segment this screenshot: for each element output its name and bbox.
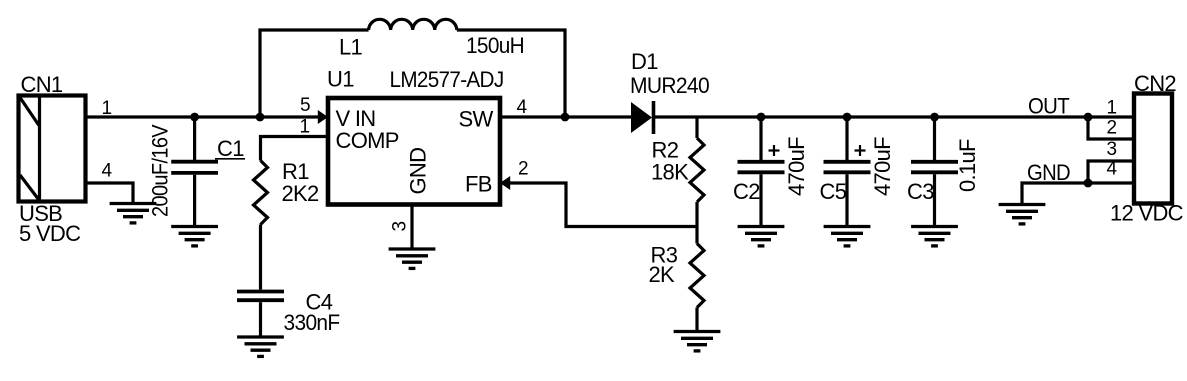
svg-text:COMP: COMP	[336, 128, 399, 153]
ground CN2	[999, 205, 1046, 224]
wire FB to divider	[500, 183, 697, 227]
svg-text:L1: L1	[339, 35, 363, 60]
wire SW to diode	[500, 115, 631, 118]
svg-text:GND: GND	[406, 148, 431, 195]
wire R1 to C4	[259, 225, 262, 290]
svg-text:U1: U1	[327, 67, 354, 92]
connector CN1	[19, 96, 86, 202]
wire R2 to R3	[695, 202, 698, 244]
wire R3 to ground	[695, 308, 698, 332]
svg-text:LM2577-ADJ: LM2577-ADJ	[390, 67, 504, 92]
ground C3	[911, 227, 958, 246]
capacitor C4	[237, 292, 284, 301]
wire C2 top	[759, 117, 762, 160]
wire C4 bottom	[259, 302, 262, 337]
svg-text:D1: D1	[631, 49, 658, 74]
wire diode cathode to CN2	[654, 115, 1135, 118]
svg-text:2K2: 2K2	[282, 181, 320, 206]
svg-text:150uH: 150uH	[466, 33, 524, 58]
pin 5 arrow of U1	[318, 110, 328, 124]
inductor L1	[369, 19, 457, 30]
wire main rail VIN (CN1 pin1 to U1 pin5)	[85, 115, 322, 118]
capacitor C5	[824, 162, 871, 173]
svg-text:CN2: CN2	[1134, 71, 1176, 96]
ground U1 pin3	[389, 249, 436, 268]
wire CN2 pin2	[1088, 117, 1134, 139]
node C1 junction	[190, 113, 199, 122]
svg-text:2: 2	[518, 159, 528, 180]
svg-text:OUT: OUT	[1028, 94, 1069, 119]
ground R3	[674, 332, 721, 351]
wire C3 bottom	[933, 174, 936, 226]
svg-text:4: 4	[517, 97, 528, 118]
node L1 left junction	[256, 113, 265, 122]
svg-text:3: 3	[1107, 139, 1117, 160]
svg-text:5: 5	[300, 95, 310, 116]
op-amp U1 LM2577-ADJ box	[328, 98, 500, 205]
pin 3 wire U1 GND	[410, 205, 413, 250]
ground C1	[171, 227, 218, 246]
diode D1	[631, 101, 654, 134]
wire C3 top	[933, 117, 936, 160]
wire L1 right leg	[457, 30, 565, 117]
node CN2 pin1 junction	[1084, 113, 1093, 122]
svg-text:MUR240: MUR240	[630, 73, 709, 98]
svg-text:2K: 2K	[649, 262, 676, 287]
resistor R3	[690, 244, 704, 308]
wire COMP pin1 to R1	[261, 137, 329, 161]
wire C1 top	[193, 117, 196, 160]
svg-text:470uF: 470uF	[870, 137, 895, 196]
node SW junction	[561, 113, 570, 122]
svg-text:FB: FB	[465, 172, 492, 197]
svg-text:C1: C1	[217, 136, 244, 161]
svg-text:4: 4	[102, 161, 113, 182]
ground C4	[237, 337, 284, 356]
svg-text:18K: 18K	[651, 160, 689, 185]
svg-text:SW: SW	[459, 107, 494, 132]
node C5 junction	[843, 113, 852, 122]
wire L1 left leg	[260, 30, 369, 117]
connector CN2	[1134, 94, 1172, 204]
svg-text:5 VDC: 5 VDC	[19, 221, 81, 246]
plus sign C5	[855, 145, 866, 156]
svg-text:330nF: 330nF	[284, 310, 340, 335]
wire C5 top	[845, 117, 848, 160]
svg-text:CN1: CN1	[21, 72, 63, 97]
svg-text:200uF/16V: 200uF/16V	[148, 124, 173, 217]
svg-text:2: 2	[1107, 117, 1117, 138]
wire C1 bottom	[193, 175, 196, 227]
pin 2 arrow of U1	[500, 176, 510, 190]
node C3 junction	[930, 113, 939, 122]
capacitor C2	[738, 162, 785, 173]
wire R2 top lead	[695, 117, 698, 138]
capacitor C3	[911, 162, 958, 173]
wire C2 bottom	[759, 174, 762, 226]
ground C5	[824, 227, 871, 246]
svg-text:C3: C3	[907, 179, 934, 204]
svg-text:GND: GND	[1027, 160, 1070, 185]
svg-text:470uF: 470uF	[784, 137, 809, 196]
label C1	[215, 136, 245, 161]
svg-text:0.1uF: 0.1uF	[955, 139, 980, 192]
wire CN1 pin4 to ground	[85, 183, 133, 204]
svg-text:12 VDC: 12 VDC	[1110, 200, 1184, 225]
wire CN2 pin4 to ground	[1022, 183, 1134, 205]
svg-text:1: 1	[1107, 98, 1117, 119]
svg-text:3: 3	[390, 221, 411, 231]
resistor R2	[690, 138, 704, 202]
capacitor C1	[171, 162, 218, 173]
resistor R1	[254, 161, 268, 225]
svg-text:4: 4	[1107, 159, 1118, 180]
svg-text:1: 1	[300, 117, 310, 138]
ground C2	[738, 227, 785, 246]
svg-text:C5: C5	[820, 179, 847, 204]
node CN2 pin4 junction	[1084, 179, 1093, 188]
svg-text:C2: C2	[733, 179, 760, 204]
wire C5 bottom	[845, 174, 848, 226]
ground CN1 pin4	[110, 204, 157, 223]
node C2 junction	[757, 113, 766, 122]
plus sign C2	[769, 145, 780, 156]
wire CN2 pin3	[1088, 161, 1134, 183]
